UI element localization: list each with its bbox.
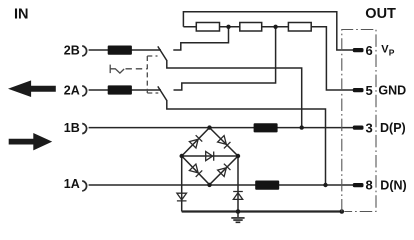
svg-text:IN: IN xyxy=(14,6,29,22)
svg-text:P: P xyxy=(389,48,395,58)
svg-text:1A: 1A xyxy=(64,177,80,191)
svg-text:OUT: OUT xyxy=(365,6,396,22)
svg-text:1B: 1B xyxy=(64,121,80,135)
svg-text:5: 5 xyxy=(366,83,373,98)
svg-text:3: 3 xyxy=(366,120,373,135)
svg-text:8: 8 xyxy=(366,178,373,193)
svg-text:2A: 2A xyxy=(64,84,80,98)
svg-text:6: 6 xyxy=(366,43,373,58)
svg-text:2B: 2B xyxy=(64,44,80,58)
svg-text:D(P): D(P) xyxy=(380,121,406,135)
svg-text:D(N): D(N) xyxy=(380,178,406,192)
svg-text:GND: GND xyxy=(378,84,406,98)
